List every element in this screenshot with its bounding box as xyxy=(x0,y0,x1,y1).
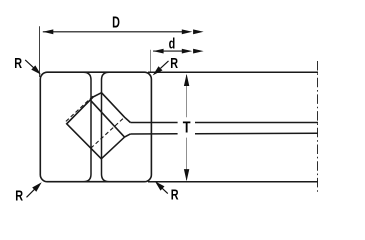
svg-text:D: D xyxy=(112,15,120,32)
svg-text:d: d xyxy=(169,36,176,53)
svg-text:R: R xyxy=(170,55,178,72)
svg-text:R: R xyxy=(171,187,179,204)
svg-text:R: R xyxy=(15,187,23,204)
svg-text:T: T xyxy=(183,119,191,136)
svg-text:R: R xyxy=(14,55,22,72)
